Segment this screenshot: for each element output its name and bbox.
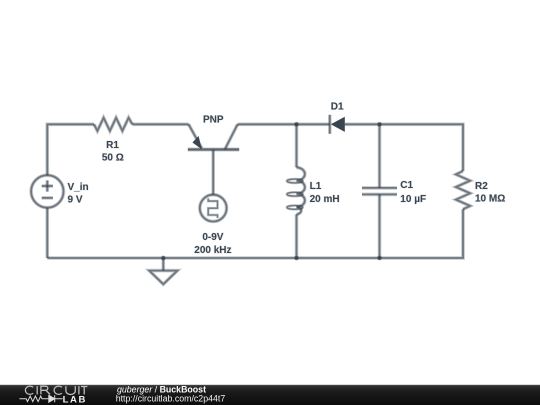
svg-text:L1: L1 bbox=[310, 181, 322, 192]
wire: V_in bottom lead to bottom rail bbox=[45, 208, 49, 258]
svg-text:LAB: LAB bbox=[63, 394, 87, 405]
resistor R1 bbox=[94, 118, 132, 131]
svg-text:http://circuitlab.com/c2p44t7: http://circuitlab.com/c2p44t7 bbox=[116, 394, 226, 404]
ground bbox=[149, 258, 177, 284]
node B junction dot (C1 top) bbox=[377, 122, 382, 127]
wire: Q1 collector to node A bbox=[238, 123, 297, 127]
svg-text:PNP: PNP bbox=[203, 115, 224, 126]
transistor Q1 PNP bbox=[188, 124, 239, 195]
wire: node A to D1 anode bbox=[297, 123, 330, 127]
svg-text:10 µF: 10 µF bbox=[400, 194, 426, 205]
diode D1 bbox=[330, 115, 345, 134]
wire: R2 bottom to bottom-right corner bbox=[380, 209, 464, 258]
footer bar bbox=[0, 385, 540, 405]
svg-text:D1: D1 bbox=[331, 102, 344, 113]
inductor L1 bbox=[287, 124, 305, 258]
junction dot: ground tap on bottom rail bbox=[161, 256, 166, 261]
CircuitLab logo schematic glyph (resistor + diode) bbox=[19, 395, 62, 402]
wire: node B to top-right corner down to R2 bbox=[380, 124, 464, 171]
svg-text:10 MΩ: 10 MΩ bbox=[475, 194, 505, 205]
node A junction dot (L1 top) bbox=[294, 122, 299, 127]
svg-text:R1: R1 bbox=[106, 140, 119, 151]
wire: D1 to node B bbox=[345, 123, 380, 127]
junction dot: C1 bottom bbox=[377, 256, 382, 261]
junction dot: L1 bottom bbox=[294, 256, 299, 261]
resistor R2 bbox=[456, 171, 470, 209]
svg-text:R2: R2 bbox=[475, 181, 488, 192]
svg-text:200 kHz: 200 kHz bbox=[194, 245, 231, 256]
svg-text:V_in: V_in bbox=[68, 182, 89, 193]
svg-text:C1: C1 bbox=[400, 180, 413, 191]
wire: V_in top lead up and top-left corner to R1 bbox=[47, 124, 94, 175]
capacitor C1 bbox=[362, 124, 397, 258]
CircuitLab logo wordmark CIRCUIT bbox=[25, 386, 87, 394]
function generator V2 (square-wave source) bbox=[200, 195, 227, 222]
wire: R1 to Q1 emitter bbox=[132, 123, 188, 127]
svg-text:9 V: 9 V bbox=[68, 194, 83, 205]
wire: bottom rail bbox=[47, 256, 379, 260]
voltage source V_in bbox=[31, 175, 63, 207]
svg-text:50 Ω: 50 Ω bbox=[102, 152, 124, 163]
svg-text:20 mH: 20 mH bbox=[310, 194, 340, 205]
svg-text:0-9V: 0-9V bbox=[202, 232, 223, 243]
